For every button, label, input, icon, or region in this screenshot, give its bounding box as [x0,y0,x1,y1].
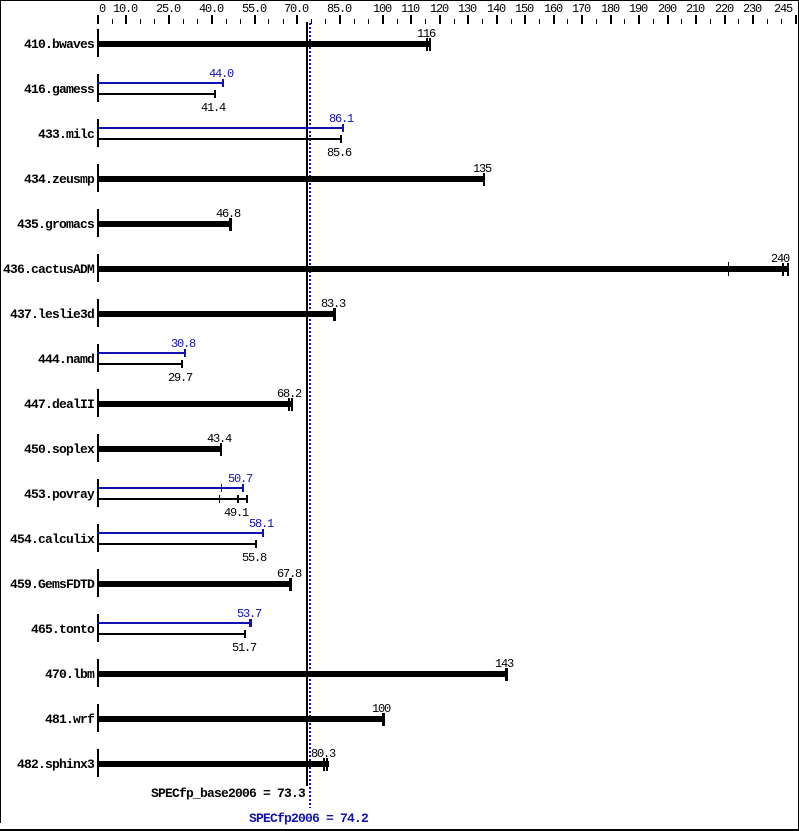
benchmark label 470.lbm [45,668,94,681]
bar 447.dealII = 68.2 [0,0,1,1]
axis cap 470.lbm [97,659,99,687]
bar 435.gromacs = 46.8 [0,0,1,1]
peak bar 433.milc = 86.1 [0,0,1,1]
peak bar 444.namd = 30.8 [0,0,1,1]
base bar 444.namd = 29.7 [0,0,1,1]
benchmark label 435.gromacs [17,218,94,231]
axis cap 450.soplex [97,434,99,462]
benchmark label 436.cactusADM [3,263,94,276]
bar 470.lbm = 143 [0,0,1,1]
benchmark label 459.GemsFDTD [10,578,94,591]
axis cap 437.leslie3d [97,299,99,327]
axis cap 416.gamess [97,74,99,102]
peak bar 453.povray = 50.7 [0,0,1,1]
bar 410.bwaves = 116 [0,0,1,1]
benchmark label 454.calculix [10,533,94,546]
bar 482.sphinx3 = 80.3 [0,0,1,1]
peak bar 416.gamess = 44.0 [0,0,1,1]
x axis scale labels [0,0,1,1]
benchmark label 482.sphinx3 [17,758,94,771]
bar 437.leslie3d = 83.3 [0,0,1,1]
axis cap 436.cactusADM [97,254,99,282]
summary SPECfp_base2006 [151,787,305,800]
peak bar 454.calculix = 58.1 [0,0,1,1]
axis cap 447.dealII [97,389,99,417]
chart border frame [0,0,1,1]
axis cap 444.namd [97,344,99,372]
axis cap 435.gromacs [97,209,99,237]
base bar 416.gamess = 41.4 [0,0,1,1]
benchmark label 444.namd [38,353,94,366]
axis cap 433.milc [97,119,99,147]
axis cap 453.povray [97,479,99,507]
summary SPECfp2006 [249,812,368,825]
bar 450.soplex = 43.4 [0,0,1,1]
bar 459.GemsFDTD = 67.8 [0,0,1,1]
base bar 454.calculix = 55.8 [0,0,1,1]
x axis scale ticks [0,0,1,1]
peak bar 465.tonto = 53.7 [0,0,1,1]
benchmark label 447.dealII [24,398,94,411]
bar 436.cactusADM = 240 [0,0,1,1]
axis cap 454.calculix [97,524,99,552]
benchmark label 450.soplex [24,443,94,456]
benchmark label 437.leslie3d [10,308,94,321]
SPECfp_base2006 median line (73.3) [306,22,308,786]
bar 434.zeusmp = 135 [0,0,1,1]
bar 481.wrf = 100 [0,0,1,1]
benchmark label 453.povray [24,488,94,501]
base bar 433.milc = 85.6 [0,0,1,1]
benchmark label 434.zeusmp [24,173,94,186]
axis cap 482.sphinx3 [97,749,99,777]
benchmark label 481.wrf [45,713,94,726]
axis cap 481.wrf [97,704,99,732]
axis cap 459.GemsFDTD [97,569,99,597]
benchmark label 410.bwaves [24,38,94,51]
axis cap 465.tonto [97,614,99,642]
axis cap 434.zeusmp [97,164,99,192]
SPECfp2006 median dotted line (74.2) [309,23,311,808]
axis cap 410.bwaves [97,29,99,57]
base bar 465.tonto = 51.7 [0,0,1,1]
benchmark label 465.tonto [31,623,94,636]
benchmark label 416.gamess [24,83,94,96]
base bar 453.povray = 49.1 [0,0,1,1]
benchmark label 433.milc [38,128,94,141]
